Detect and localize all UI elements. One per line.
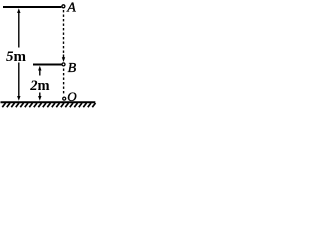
svg-text:2m: 2m [29, 78, 49, 94]
ledge line (2m level) [33, 64, 62, 66]
svg-text:B: B [68, 61, 77, 76]
point O [63, 97, 66, 100]
ground hatching [2, 103, 95, 107]
5m dimension arrow upper segment (arrowhead up at platform) [18, 12, 20, 48]
wire: dashed fall path B to O [63, 69, 65, 96]
svg-text:A: A [66, 1, 76, 16]
platform line (top, 5m level) [3, 6, 61, 8]
point B [62, 63, 65, 66]
svg-text:5m: 5m [6, 49, 27, 65]
arrowhead pointing down at B [62, 57, 65, 62]
ground line [1, 101, 96, 103]
wire: solid shaft before arrowhead at B [63, 55, 65, 60]
2m dimension arrow lower segment (arrowhead down at ground) [39, 93, 41, 98]
5m dimension arrow lower segment (arrowhead down at ground) [18, 63, 20, 98]
wire: dashed fall path A to B [63, 10, 65, 55]
2m dimension arrow upper segment (arrowhead up at ledge) [39, 69, 41, 76]
point A [62, 5, 65, 8]
